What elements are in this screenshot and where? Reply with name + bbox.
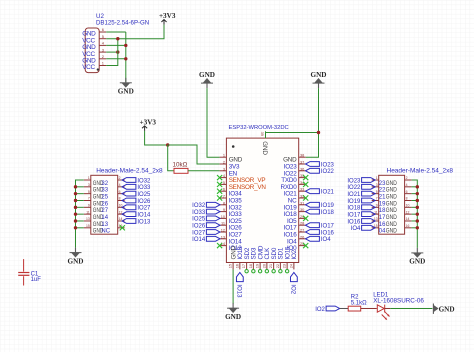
net IO33 (chip left) <box>192 209 220 216</box>
wire U2 pin6 GND to GND bus <box>106 31 126 33</box>
svg-text:IO2: IO2 <box>291 249 298 259</box>
junction GND bus <box>74 192 77 195</box>
svg-text:7: 7 <box>376 197 378 201</box>
junction GND bus <box>74 199 77 202</box>
svg-text:13: 13 <box>101 222 108 228</box>
ground (right header) <box>409 248 425 266</box>
wire right GND rail <box>306 88 319 157</box>
svg-text:1uF: 1uF <box>31 277 42 283</box>
net IO14 (chip left) <box>192 236 220 243</box>
ic U1 ESP32-WROOM-32DC <box>220 125 306 270</box>
net IO25 (left header) <box>122 191 151 198</box>
svg-text:IO22: IO22 <box>347 185 361 191</box>
unconnected pin SD2 <box>245 270 248 273</box>
svg-text:IO26: IO26 <box>192 224 206 230</box>
svg-text:10kΩ: 10kΩ <box>173 162 188 169</box>
svg-text:IO2: IO2 <box>290 284 296 294</box>
svg-text:15: 15 <box>228 264 233 268</box>
junction GND bus <box>74 206 77 209</box>
svg-text:IO13: IO13 <box>236 284 242 298</box>
wire header pin to GND bus <box>76 213 84 215</box>
svg-text:IO27: IO27 <box>137 206 151 212</box>
no-connect flag RXD0 <box>303 182 308 187</box>
no-connect flag IO12 <box>217 243 222 248</box>
svg-text:14: 14 <box>101 215 108 221</box>
junction U2 pin4/GND bus <box>124 44 127 47</box>
wire header pin to GND bus <box>76 193 84 195</box>
svg-text:IO23: IO23 <box>347 178 361 184</box>
junction EN pull-up node <box>166 143 169 146</box>
wire header pin to GND bus <box>412 186 418 188</box>
junction U2 pin5/VCC bus <box>116 37 119 40</box>
ground (left header) <box>68 248 84 266</box>
svg-text:VCC: VCC <box>82 64 95 71</box>
wire LED cathode to GND <box>390 308 432 310</box>
svg-text:GND: GND <box>386 208 398 214</box>
wire U2 pin5 VCC to +3V3 rail <box>106 25 164 39</box>
svg-text:7: 7 <box>88 197 90 201</box>
net IO4 (right header) <box>351 225 375 232</box>
svg-text:GND: GND <box>439 305 455 313</box>
wire +3V3 to junction <box>145 131 168 145</box>
wire GND rail to pin 1 <box>207 88 220 157</box>
svg-text:GND: GND <box>261 141 268 155</box>
junction U2 pin2/GND bus <box>124 57 127 60</box>
svg-text:5: 5 <box>376 190 378 194</box>
junction GND bus <box>416 185 419 188</box>
no-connect flag SENSOR_VP <box>217 175 222 180</box>
wire R2 to LED anode <box>361 308 377 310</box>
svg-text:IO17: IO17 <box>347 212 361 218</box>
svg-text:19: 19 <box>255 264 260 268</box>
svg-text:39: 39 <box>260 132 265 136</box>
svg-text:27: 27 <box>101 208 108 214</box>
svg-text:IO2: IO2 <box>315 307 325 313</box>
wire U2 pin2 to GND bus <box>106 58 126 60</box>
svg-text:9: 9 <box>376 203 378 207</box>
junction right rail <box>317 131 320 134</box>
svg-text:4: 4 <box>119 183 121 187</box>
svg-text:22: 22 <box>275 264 280 268</box>
wire header pin to GND bus <box>412 213 418 215</box>
net IO21 (right header) <box>347 191 375 198</box>
net IO19 (right header) <box>347 198 375 205</box>
wire left header GND bus <box>76 180 84 248</box>
svg-text:Header-Male-2.54_2x8: Header-Male-2.54_2x8 <box>96 168 163 175</box>
svg-text:GND: GND <box>386 181 398 187</box>
svg-text:4: 4 <box>406 183 408 187</box>
svg-text:GND: GND <box>68 257 84 265</box>
wire header pin to GND bus <box>76 206 84 208</box>
junction GND bus <box>74 226 77 229</box>
svg-text:9: 9 <box>88 203 90 207</box>
svg-text:+3V3: +3V3 <box>140 119 157 127</box>
power +3V3 (U2) <box>159 12 176 24</box>
svg-text:IO25: IO25 <box>192 217 206 223</box>
svg-text:10: 10 <box>406 203 410 207</box>
svg-text:IO23: IO23 <box>321 162 335 168</box>
net IO33 (left header) <box>122 184 151 191</box>
net IO18 (chip right) <box>306 209 335 216</box>
ground (chip right rail) <box>311 71 327 88</box>
junction GND bus <box>416 212 419 215</box>
ground (chip pin 1 rail) <box>199 71 215 88</box>
svg-text:IO16: IO16 <box>347 219 361 225</box>
svg-text:5: 5 <box>88 190 90 194</box>
no-connect flag SENSOR_VN <box>217 182 222 187</box>
net IO2 (LED drive) <box>315 306 339 313</box>
junction GND bus <box>74 185 77 188</box>
svg-text:32: 32 <box>101 181 108 187</box>
LED LED1 XL-1608SURC-06 <box>373 293 424 321</box>
net IO16 (right header) <box>347 219 375 226</box>
junction GND bus <box>416 226 419 229</box>
no-connect flag NC <box>303 195 308 200</box>
svg-text:GND: GND <box>386 229 398 235</box>
net IO16 (chip right) <box>306 230 335 237</box>
net IO26 (chip left) <box>192 223 220 230</box>
svg-text:IO19: IO19 <box>321 203 335 209</box>
svg-text:3: 3 <box>88 183 90 187</box>
svg-text:IO14: IO14 <box>192 237 206 243</box>
wire resistor to EN pin 3 <box>188 170 220 172</box>
svg-text:IO33: IO33 <box>137 185 151 191</box>
svg-text:GND: GND <box>386 222 398 228</box>
svg-text:GND: GND <box>311 71 327 79</box>
wire header pin to GND bus <box>412 206 418 208</box>
wire right header GND bus <box>412 180 418 248</box>
no-connect flag IO0 <box>303 243 308 248</box>
no-connect flag IO35 <box>217 195 222 200</box>
wire node down to resistor <box>168 145 174 171</box>
svg-text:GND: GND <box>386 201 398 207</box>
svg-text:IO26: IO26 <box>137 199 151 205</box>
wire node to 3V3 pin 2 <box>168 145 220 164</box>
svg-text:Header-Male-2.54_2x8: Header-Male-2.54_2x8 <box>387 168 454 175</box>
junction U2 pin3/VCC bus <box>116 50 119 53</box>
svg-text:6: 6 <box>406 190 408 194</box>
svg-text:21: 21 <box>268 264 273 268</box>
net IO23 (right header) <box>347 178 375 185</box>
net IO13 (chip bottom) <box>236 272 244 298</box>
net IO18 (right header) <box>347 205 375 212</box>
svg-text:IO22: IO22 <box>321 169 335 175</box>
svg-text:25: 25 <box>101 194 108 200</box>
junction GND bus <box>74 219 77 222</box>
junction GND bus <box>74 212 77 215</box>
svg-text:IO18: IO18 <box>347 206 361 212</box>
wire header pin to GND bus <box>412 227 418 229</box>
svg-text:IO17: IO17 <box>321 224 335 230</box>
capacitor C1 1uF <box>18 259 41 285</box>
svg-text:IO18: IO18 <box>321 210 335 216</box>
unconnected pin CMD <box>258 270 261 273</box>
net IO14 (left header) <box>122 212 151 219</box>
svg-text:IO32: IO32 <box>137 178 151 184</box>
no-connect flag TXD0 <box>303 175 308 180</box>
svg-text:GND: GND <box>386 215 398 221</box>
wire U2 pin4 to GND bus <box>106 44 126 46</box>
svg-text:GND: GND <box>386 194 398 200</box>
svg-text:IO21: IO21 <box>321 190 335 196</box>
wire header pin to GND bus <box>76 199 84 201</box>
net IO4 (chip right) <box>306 236 332 243</box>
wire header pin to GND bus <box>412 193 418 195</box>
svg-text:IO4: IO4 <box>321 237 331 243</box>
svg-text:8: 8 <box>406 197 408 201</box>
svg-text:IO4: IO4 <box>351 226 361 232</box>
resistor 10k <box>173 162 189 174</box>
net IO22 (chip right) <box>306 168 335 175</box>
header P1 Header-Male-2.54_2x8 (left) <box>84 168 163 235</box>
svg-text:IO32: IO32 <box>192 203 206 209</box>
net IO21 (chip right) <box>306 189 335 196</box>
no-connect flag left header pin 16 <box>120 225 125 230</box>
net IO27 (chip left) <box>192 230 220 237</box>
unconnected pin SD0 <box>272 270 275 273</box>
svg-text:8: 8 <box>119 197 121 201</box>
wire U2 GND bus <box>125 32 127 82</box>
wire chip GND pin 15 down <box>232 269 234 304</box>
wire header pin to GND bus <box>76 186 84 188</box>
svg-text:3: 3 <box>376 183 378 187</box>
svg-text:23: 23 <box>282 264 287 268</box>
svg-text:17: 17 <box>241 264 246 268</box>
wire U2 pin3 to VCC bus <box>106 51 118 53</box>
wire header pin to GND bus <box>76 220 84 222</box>
svg-text:6: 6 <box>119 190 121 194</box>
wire top pin 39 to right rail <box>266 133 319 139</box>
svg-text:33: 33 <box>101 188 108 194</box>
no-connect flag IO5 <box>303 216 308 221</box>
net IO23 (chip right) <box>306 162 335 169</box>
svg-text:GND: GND <box>386 188 398 194</box>
no-connect flag IO34 <box>217 189 222 194</box>
ground (chip bottom) <box>225 303 241 321</box>
net IO17 (right header) <box>347 212 375 219</box>
net IO22 (right header) <box>347 184 375 191</box>
junction GND bus <box>416 219 419 222</box>
svg-text:IO14: IO14 <box>137 212 151 218</box>
svg-text:+3V3: +3V3 <box>159 12 176 20</box>
connector U2 DB125-2.54-6P-GN <box>82 13 149 73</box>
svg-text:GND: GND <box>199 71 215 79</box>
svg-text:XL-1608SURC-06: XL-1608SURC-06 <box>373 298 424 305</box>
wire LED cathode stub <box>385 308 391 310</box>
junction GND bus <box>416 199 419 202</box>
svg-text:IO25: IO25 <box>137 192 151 198</box>
net IO32 (chip left) <box>192 202 220 209</box>
svg-text:26: 26 <box>101 201 108 207</box>
svg-text:NC: NC <box>101 229 110 235</box>
header P2 Header-Male-2.54_2x8 (right) <box>372 168 454 235</box>
svg-text:IO21: IO21 <box>347 192 361 198</box>
unconnected pin SD1 <box>279 270 282 273</box>
power +3V3 (EN pull-up) <box>140 119 157 131</box>
net IO26 (left header) <box>122 198 151 205</box>
svg-text:IO16: IO16 <box>321 230 335 236</box>
unconnected pin IO15 <box>285 270 288 273</box>
ground (U2) <box>118 78 134 96</box>
net IO17 (chip right) <box>306 223 335 230</box>
net IO27 (left header) <box>122 205 151 212</box>
net IO13 (left header) <box>122 219 151 226</box>
resistor R2 5.1k <box>348 295 367 311</box>
net IO32 (left header) <box>122 178 151 185</box>
svg-text:GND: GND <box>118 88 134 96</box>
unconnected pin SD3 <box>252 270 255 273</box>
wire header pin to GND bus <box>76 227 84 229</box>
junction GND bus <box>416 192 419 195</box>
svg-text:IO27: IO27 <box>192 230 206 236</box>
svg-text:16: 16 <box>234 264 239 268</box>
svg-text:18: 18 <box>248 264 253 268</box>
wire IO2 flag to R2 <box>340 308 349 310</box>
svg-text:IO19: IO19 <box>347 199 361 205</box>
svg-text:ESP32-WROOM-32DC: ESP32-WROOM-32DC <box>229 125 289 131</box>
junction GND bus <box>416 206 419 209</box>
svg-text:IO33: IO33 <box>192 210 206 216</box>
unconnected pin CLK <box>265 270 268 273</box>
wire header pin to GND bus <box>412 199 418 201</box>
net IO2 (chip bottom) <box>290 272 298 294</box>
svg-text:DB125-2.54-6P-GN: DB125-2.54-6P-GN <box>96 19 149 26</box>
net IO25 (chip left) <box>192 216 220 223</box>
ground (LED) <box>433 304 454 314</box>
wire U2 VCC bus <box>106 39 118 66</box>
wire header pin to GND bus <box>412 220 418 222</box>
svg-text:GND: GND <box>409 258 425 266</box>
svg-text:GND: GND <box>225 313 241 321</box>
svg-text:IO13: IO13 <box>137 219 151 225</box>
net IO19 (chip right) <box>306 202 335 209</box>
